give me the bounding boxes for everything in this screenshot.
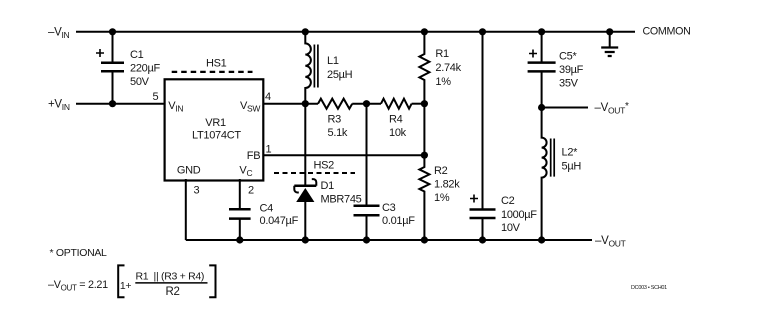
svg-text:R1: R1 bbox=[435, 48, 449, 60]
pin 4 label bbox=[265, 91, 271, 103]
svg-text:R2: R2 bbox=[434, 165, 448, 177]
svg-text:R1 || (R3 + R4): R1 || (R3 + R4) bbox=[136, 270, 205, 282]
junction C2 top bbox=[479, 28, 486, 35]
junction FB node bbox=[421, 152, 428, 159]
junction R2 bottom bbox=[421, 236, 428, 243]
svg-text:2: 2 bbox=[248, 185, 254, 197]
node -VOUT* label bbox=[595, 101, 630, 116]
junction C1 top bbox=[109, 28, 116, 35]
formula right bracket bbox=[209, 265, 215, 297]
svg-text:VR1: VR1 bbox=[205, 117, 226, 129]
svg-text:2.74k: 2.74k bbox=[435, 62, 461, 74]
svg-text:C2: C2 bbox=[501, 195, 515, 207]
svg-text:10V: 10V bbox=[501, 222, 521, 234]
junction R3-R4 node bbox=[363, 100, 370, 107]
svg-text:0.047µF: 0.047µF bbox=[260, 215, 299, 227]
svg-text:L2*: L2* bbox=[562, 147, 579, 159]
svg-text:DC003 • SCH01: DC003 • SCH01 bbox=[631, 285, 667, 291]
resistor R3 5.1k bbox=[318, 99, 352, 139]
heat sink HS1 dashed bbox=[172, 57, 253, 72]
wire VSW rail pin4 to R3 bbox=[263, 103, 318, 105]
svg-text:25µH: 25µH bbox=[327, 69, 353, 81]
inductor L2 5uH bbox=[542, 108, 582, 241]
svg-text:C4: C4 bbox=[260, 203, 274, 215]
svg-text:C3: C3 bbox=[382, 202, 396, 214]
wire R3 to R4 bbox=[352, 103, 381, 105]
junction L2 bottom bbox=[538, 236, 545, 243]
svg-text:50V: 50V bbox=[130, 76, 150, 88]
wire R4 to node bbox=[412, 103, 425, 105]
node COMMON label bbox=[643, 26, 691, 38]
svg-text:5.1k: 5.1k bbox=[328, 127, 348, 139]
junction ground bbox=[606, 28, 613, 35]
diode D1 MBR745 bbox=[294, 104, 361, 240]
pin 2 label bbox=[248, 185, 254, 197]
junction C1 bottom bbox=[109, 100, 116, 107]
capacitor C3 0.01uF bbox=[354, 104, 416, 240]
pin 3 wire GND bbox=[185, 179, 187, 240]
junction C4 bottom bbox=[236, 236, 243, 243]
svg-text:LT1074CT: LT1074CT bbox=[192, 130, 241, 142]
wire -VOUT* stub bbox=[542, 107, 588, 109]
wire bottom rail (-VOUT) bbox=[186, 239, 592, 241]
svg-text:+VIN: +VIN bbox=[48, 99, 70, 113]
note optional bbox=[50, 247, 108, 259]
wire FB pin1 to R2 node bbox=[263, 154, 424, 156]
note schematic code bbox=[631, 285, 667, 291]
svg-text:R3: R3 bbox=[328, 113, 342, 125]
svg-text:FB: FB bbox=[247, 150, 260, 162]
junction L1 top bbox=[302, 28, 309, 35]
svg-text:–VOUT*: –VOUT* bbox=[595, 101, 630, 116]
svg-text:COMMON: COMMON bbox=[643, 26, 691, 38]
inductor L1 25uH bbox=[305, 32, 352, 104]
junction C3 bottom bbox=[363, 236, 370, 243]
svg-text:L1: L1 bbox=[327, 55, 339, 67]
svg-text:R2: R2 bbox=[166, 286, 180, 298]
formula left bracket bbox=[118, 265, 124, 297]
ground bbox=[601, 32, 618, 56]
capacitor C2 1000uF bbox=[470, 32, 538, 240]
svg-text:* OPTIONAL: * OPTIONAL bbox=[50, 247, 108, 259]
svg-text:5: 5 bbox=[153, 91, 159, 103]
resistor R4 10k bbox=[381, 99, 412, 139]
svg-text:D1: D1 bbox=[321, 180, 335, 192]
svg-text:1000µF: 1000µF bbox=[501, 209, 537, 221]
capacitor C4 0.047uF bbox=[229, 179, 299, 240]
svg-text:HS1: HS1 bbox=[206, 57, 227, 69]
svg-text:MBR745: MBR745 bbox=[321, 194, 362, 206]
svg-text:4: 4 bbox=[265, 91, 271, 103]
svg-text:5µH: 5µH bbox=[562, 161, 582, 173]
svg-text:C5*: C5* bbox=[559, 51, 577, 63]
svg-text:1%: 1% bbox=[435, 76, 451, 88]
svg-text:1.82k: 1.82k bbox=[434, 179, 460, 191]
formula -VOUT equation bbox=[48, 270, 204, 298]
capacitor C5 39uF bbox=[528, 32, 584, 108]
pin 3 label bbox=[194, 185, 200, 197]
junction VSW-L1-D1 bbox=[302, 100, 309, 107]
svg-text:–VIN: –VIN bbox=[48, 27, 70, 41]
svg-text:39µF: 39µF bbox=[559, 64, 584, 76]
svg-text:R4: R4 bbox=[389, 113, 403, 125]
resistor R2 1.82k bbox=[419, 104, 460, 240]
svg-text:10k: 10k bbox=[389, 127, 407, 139]
pin 1 label bbox=[266, 144, 272, 156]
capacitor C1 bbox=[96, 32, 160, 104]
svg-text:HS2: HS2 bbox=[314, 160, 335, 172]
svg-text:220µF: 220µF bbox=[130, 63, 160, 75]
junction C2 bottom bbox=[479, 236, 486, 243]
junction C5 top bbox=[538, 28, 545, 35]
formula fraction bar bbox=[135, 282, 207, 284]
junction -VOUT* tap bbox=[538, 104, 545, 111]
svg-text:GND: GND bbox=[177, 164, 201, 176]
junction R1 top bbox=[421, 28, 428, 35]
svg-text:–VOUT: –VOUT bbox=[595, 235, 626, 249]
op-amp U1 regulator VR1 LT1074CT box bbox=[165, 79, 264, 180]
svg-text:–VOUT = 2.21: –VOUT = 2.21 bbox=[48, 279, 108, 293]
pin 5 label bbox=[153, 91, 159, 103]
svg-text:0.01µF: 0.01µF bbox=[382, 215, 415, 227]
node -VIN label bbox=[48, 27, 70, 41]
junction D1 bottom bbox=[302, 236, 309, 243]
heat sink HS2 dashed bbox=[274, 160, 355, 173]
junction R4 right node bbox=[421, 100, 428, 107]
wire +VIN rail to pin 5 bbox=[76, 103, 165, 105]
svg-text:1+: 1+ bbox=[120, 280, 132, 292]
node +VIN label bbox=[48, 99, 70, 113]
resistor R1 2.74k bbox=[419, 32, 461, 104]
node -VOUT label bbox=[595, 235, 626, 249]
svg-text:35V: 35V bbox=[559, 77, 579, 89]
svg-text:1%: 1% bbox=[434, 192, 450, 204]
svg-text:1: 1 bbox=[266, 144, 272, 156]
wire top rail (-VIN to COMMON) bbox=[76, 31, 635, 33]
svg-text:3: 3 bbox=[194, 185, 200, 197]
svg-text:C1: C1 bbox=[130, 49, 144, 61]
